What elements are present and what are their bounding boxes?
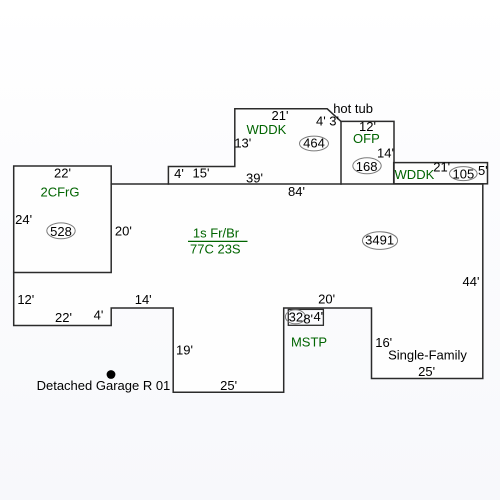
svg-text:20': 20': [318, 292, 335, 307]
svg-text:3491: 3491: [365, 233, 394, 248]
svg-text:25': 25': [220, 378, 237, 393]
svg-text:14': 14': [135, 292, 152, 307]
svg-text:25': 25': [418, 364, 435, 379]
svg-text:24': 24': [15, 212, 32, 227]
svg-text:8': 8': [303, 312, 313, 327]
svg-text:Single-Family: Single-Family: [388, 348, 467, 363]
svg-text:OFP: OFP: [353, 131, 380, 146]
svg-text:WDDK: WDDK: [247, 122, 287, 137]
svg-text:84': 84': [288, 184, 305, 199]
svg-text:39': 39': [246, 171, 263, 186]
svg-text:1s Fr/Br: 1s Fr/Br: [193, 226, 240, 241]
svg-text:77C 23S: 77C 23S: [190, 242, 241, 257]
svg-text:12': 12': [17, 292, 34, 307]
svg-text:WDDK: WDDK: [395, 167, 435, 182]
svg-text:4': 4': [313, 309, 323, 324]
svg-text:15': 15': [193, 165, 210, 180]
svg-text:20': 20': [115, 224, 132, 239]
svg-text:21': 21': [433, 160, 450, 175]
svg-text:21': 21': [272, 108, 289, 123]
svg-text:14': 14': [377, 145, 394, 160]
svg-text:464: 464: [303, 136, 325, 151]
svg-text:4': 4': [174, 166, 184, 181]
svg-text:13': 13': [234, 135, 251, 150]
svg-text:44': 44': [463, 274, 480, 289]
svg-text:MSTP: MSTP: [291, 335, 327, 350]
svg-text:105: 105: [453, 166, 475, 181]
svg-text:22': 22': [54, 166, 71, 181]
svg-text:5': 5': [478, 163, 488, 178]
svg-text:Detached Garage R 01: Detached Garage R 01: [37, 378, 171, 393]
svg-text:hot tub: hot tub: [333, 101, 373, 116]
svg-text:528: 528: [50, 224, 72, 239]
svg-text:168: 168: [356, 159, 378, 174]
svg-text:32: 32: [289, 309, 303, 324]
svg-text:4': 4': [94, 308, 104, 323]
svg-text:22': 22': [55, 310, 72, 325]
svg-text:19': 19': [176, 342, 193, 357]
svg-text:2CFrG: 2CFrG: [41, 185, 80, 200]
